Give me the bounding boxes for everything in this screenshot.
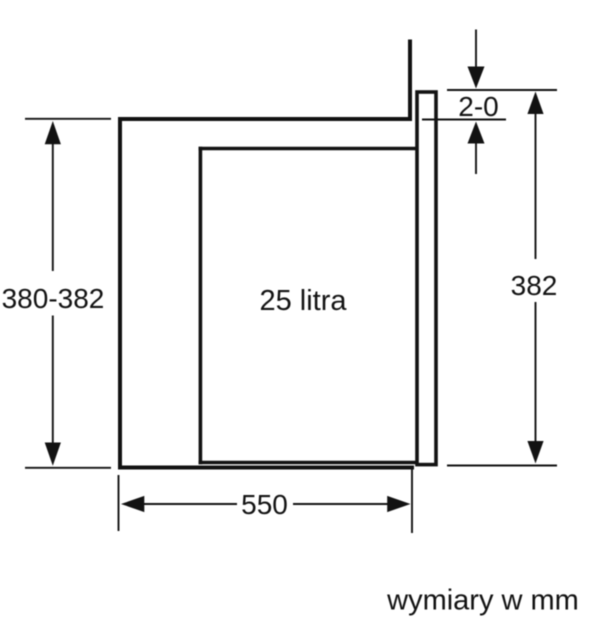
dim 382 bottom tick (447, 465, 557, 467)
dim 2-0 lower reference line (422, 119, 506, 121)
svg-text:25 litra: 25 litra (259, 285, 347, 317)
dim 2-0 upper reference line (447, 89, 557, 91)
dim 380-382 down arrow (52, 316, 54, 446)
dim 380-382 top tick (25, 118, 111, 120)
dim 2-0 up arrow (468, 122, 485, 144)
svg-text:2-0: 2-0 (458, 91, 498, 122)
dim 380-382 up arrow (45, 121, 61, 144)
dim 550 left arrow (121, 496, 144, 512)
wire inner box left edge (199, 147, 203, 465)
wire inner box bottom edge (199, 461, 418, 465)
wire outer box top edge (118, 117, 412, 121)
door panel (417, 92, 436, 465)
svg-text:wymiary w mm: wymiary w mm (386, 585, 579, 617)
dim 550 right extension line (411, 469, 413, 533)
svg-text:382: 382 (511, 270, 558, 301)
wall line (408, 40, 412, 120)
wire inner box top edge (199, 147, 418, 151)
wire outer box left edge (118, 117, 122, 470)
dim 380-382 bottom tick (25, 467, 111, 469)
dim 382 up arrow (527, 92, 543, 115)
dim 550 right arrow (293, 503, 389, 505)
svg-text:550: 550 (241, 489, 288, 520)
svg-text:380-382: 380-382 (2, 283, 105, 314)
dim 382 down arrow (535, 302, 537, 443)
dim 550 left extension line (118, 475, 120, 531)
wire outer box bottom edge (118, 466, 414, 470)
dim 2-0 down arrow (475, 30, 477, 69)
